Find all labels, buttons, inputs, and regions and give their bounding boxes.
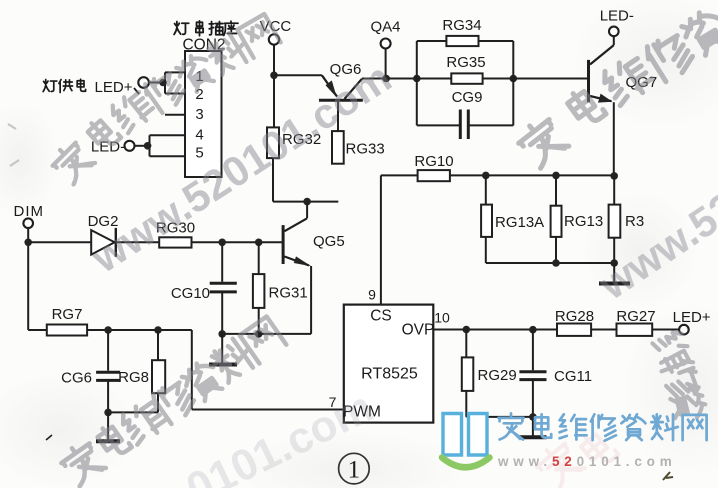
svg-text:RG8: RG8 [118,369,149,386]
svg-text:RG33: RG33 [346,141,385,158]
svg-text:RG27: RG27 [616,308,655,325]
svg-text:QA4: QA4 [370,19,400,36]
svg-text:1: 1 [348,457,361,484]
svg-text:4: 4 [195,126,203,143]
svg-text:RG10: RG10 [414,153,453,170]
svg-text:5: 5 [195,144,203,161]
svg-text:RG28: RG28 [555,308,594,325]
svg-text:OVP: OVP [402,322,435,339]
svg-text:RG29: RG29 [478,367,517,384]
svg-text:RG31: RG31 [269,285,308,302]
svg-text:www.520101.com: www.520101.com [497,454,677,469]
svg-text:LED-: LED- [600,8,634,25]
svg-text:3: 3 [195,106,203,123]
svg-text:RG13A: RG13A [495,214,544,231]
svg-text:CS: CS [370,308,392,325]
svg-text:10: 10 [434,310,450,326]
svg-text:RG7: RG7 [52,306,83,323]
svg-text:LED+: LED+ [673,309,711,326]
svg-text:LED+: LED+ [95,79,133,96]
svg-text:RG34: RG34 [442,17,481,34]
svg-text:RT8525: RT8525 [361,366,418,383]
svg-text:R3: R3 [625,213,644,230]
svg-text:CG10: CG10 [171,285,210,302]
svg-text:RG35: RG35 [446,54,485,71]
svg-text:QG5: QG5 [313,233,345,250]
svg-text:9: 9 [368,287,376,303]
svg-text:RG13: RG13 [564,213,603,230]
svg-text:CG11: CG11 [554,368,592,385]
svg-text:CG6: CG6 [61,370,92,387]
svg-text:CG9: CG9 [452,89,483,106]
